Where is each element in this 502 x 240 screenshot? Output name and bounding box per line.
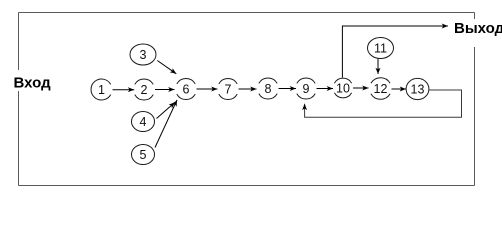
node 1 — [91, 79, 111, 100]
arrow 1 to 2 — [113, 89, 135, 91]
svg-text:3: 3 — [140, 48, 147, 62]
svg-text:2: 2 — [141, 83, 148, 97]
node 4 — [132, 112, 155, 132]
border frame right edge (gap at Выход label) — [474, 13, 476, 186]
node 7 — [219, 78, 237, 99]
wire feedback loop 13 right down left and up into 9 — [305, 90, 462, 117]
svg-text:5: 5 — [140, 148, 147, 162]
svg-text:Выход: Выход — [454, 20, 502, 37]
svg-text:7: 7 — [225, 82, 232, 96]
border frame left edge (gap at Вход label) — [18, 13, 20, 186]
arrow 4 to 6 — [157, 102, 176, 118]
svg-text:6: 6 — [183, 82, 190, 96]
arrow 7 to 8 — [239, 88, 257, 90]
svg-text:9: 9 — [303, 82, 310, 96]
svg-text:Вход: Вход — [14, 75, 52, 92]
arrow 6 to 7 — [197, 88, 218, 90]
svg-text:1: 1 — [98, 83, 105, 97]
node 5 — [132, 145, 155, 165]
svg-text:11: 11 — [374, 41, 387, 55]
svg-text:12: 12 — [374, 82, 388, 96]
arrow 9 to 10 — [317, 88, 334, 90]
node 6 — [177, 78, 195, 99]
node 8 — [259, 78, 277, 99]
node 10 — [334, 78, 351, 98]
node 11 — [368, 38, 394, 59]
arrow 8 to 9 — [279, 88, 297, 90]
arrow 5 to 6 — [155, 100, 177, 148]
node 9 — [297, 78, 315, 99]
svg-text:10: 10 — [336, 81, 350, 95]
arrow 10 to 12 — [353, 87, 369, 89]
arrow 3 to 6 — [157, 61, 176, 74]
node 13 — [406, 78, 429, 99]
arrow 2 to 6 — [155, 89, 175, 91]
wire 10 up and right to output arrow — [342, 26, 448, 78]
node 12 — [371, 78, 390, 99]
node 3 — [130, 44, 156, 65]
svg-text:8: 8 — [265, 82, 272, 96]
svg-text:4: 4 — [140, 115, 147, 129]
border frame top edge — [19, 12, 475, 14]
arrow 11 to 12 — [377, 59, 379, 74]
node 2 — [135, 79, 153, 100]
arrow 12 to 13 — [392, 88, 407, 90]
border frame bottom edge — [19, 185, 475, 187]
svg-text:13: 13 — [411, 82, 425, 96]
